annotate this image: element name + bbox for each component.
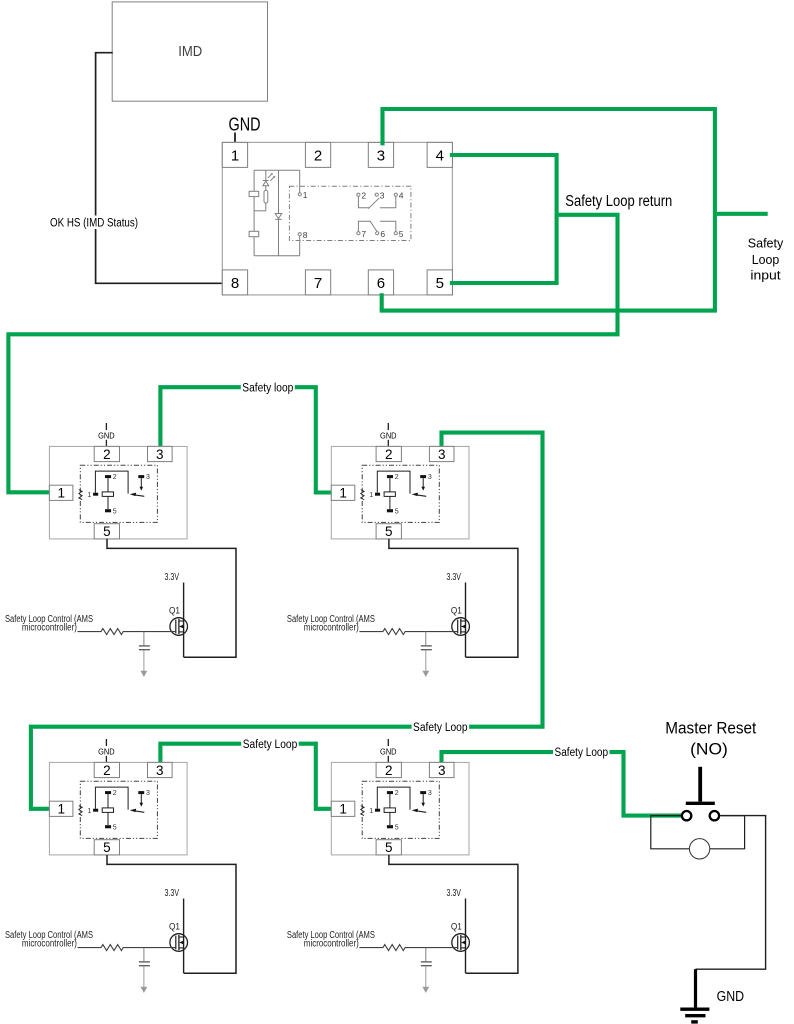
label Safety Loop Control (Q1b) (287, 614, 375, 634)
ground arrow (Q1d) (422, 987, 429, 993)
relay K3 GND net label (98, 739, 115, 762)
svg-text:Safety: Safety (748, 235, 784, 250)
svg-text:7: 7 (361, 229, 366, 239)
relay K3 internal terminal 1 (87, 808, 98, 815)
label Safety Loop input (748, 235, 784, 282)
svg-text:microcontroller): microcontroller) (304, 623, 359, 634)
svg-text:1: 1 (339, 486, 347, 501)
svg-text:3: 3 (428, 790, 432, 797)
svg-text:microcontroller): microcontroller) (22, 939, 77, 950)
svg-text:microcontroller): microcontroller) (304, 939, 359, 950)
relay U1 internal contact point 8 (298, 230, 308, 240)
relay U1 contact linkage upper (358, 196, 395, 208)
relay U1 terminal block upper (249, 191, 259, 196)
relay K4 pin 2 (376, 762, 401, 777)
svg-text:Q1: Q1 (451, 605, 462, 615)
safety loop wire: K3 pin 3 to K4 pin 1 (160, 744, 335, 809)
svg-text:3: 3 (380, 190, 385, 200)
relay K2 coil (384, 478, 395, 509)
svg-text:4: 4 (436, 147, 444, 164)
svg-text:1: 1 (87, 808, 91, 815)
ground symbol (680, 969, 709, 1022)
relay K3 package outline (49, 762, 187, 855)
3.3V supply wire (Q1c) (183, 899, 185, 974)
relay K3 internal terminal 3 (138, 790, 150, 797)
gate resistor (Q1b) (359, 629, 457, 635)
svg-text:Safety Loop: Safety Loop (243, 739, 298, 751)
relay K4 fixed contact arrow (421, 794, 425, 807)
relay K1 movable contact arm (130, 493, 145, 497)
svg-text:8: 8 (231, 275, 239, 292)
relay U1 LED light arrows (268, 173, 276, 181)
label Safety Loop Control (Q1c) (5, 930, 93, 950)
relay K4 pin 3 (429, 762, 454, 777)
svg-text:Q1: Q1 (169, 921, 180, 931)
svg-text:6: 6 (377, 275, 385, 292)
svg-text:4: 4 (399, 190, 404, 200)
relay K2 internal terminal 5 (387, 508, 399, 515)
relay K4 internal terminal 2 (387, 790, 399, 797)
relay K4 movable contact arm (412, 809, 427, 813)
relay U1 internal contact point 4 (394, 190, 404, 200)
relay K4 internal terminal 5 (387, 824, 399, 831)
relay K2 pin 5 (376, 524, 401, 539)
relay K1 coil spring mark (79, 490, 82, 500)
ground arrow (Q1b) (422, 671, 429, 677)
gate capacitor (Q1a) (139, 632, 150, 671)
gate capacitor (Q1d) (421, 948, 432, 987)
relay U1 pin 2 (305, 142, 330, 167)
svg-text:2: 2 (395, 474, 399, 481)
label OK HS (IMD Status) (49, 216, 141, 230)
relay K1 inner boundary (dash-dot box) (80, 465, 157, 522)
gate capacitor (Q1c) (139, 948, 150, 987)
svg-text:Safety Loop: Safety Loop (413, 722, 468, 734)
svg-text:3.3V: 3.3V (165, 887, 180, 899)
svg-text:GND: GND (380, 430, 397, 440)
svg-text:2: 2 (395, 790, 399, 797)
gate resistor (Q1a) (78, 629, 176, 635)
relay U1 pin 8 (222, 270, 247, 295)
svg-text:1: 1 (369, 492, 373, 499)
svg-text:GND: GND (98, 430, 115, 440)
svg-text:3: 3 (377, 147, 385, 164)
svg-text:3: 3 (146, 790, 150, 797)
wire relay pin 5 to Q1a drain loop (107, 539, 236, 657)
master reset lamp (689, 839, 709, 859)
transistor Q1a (N-MOSFET) (170, 618, 188, 636)
relay U1 input resistor (264, 190, 268, 203)
relay K3 pin 2 (94, 762, 119, 777)
relay K1 pin 1 (49, 485, 73, 500)
safety loop wire: return branch to relay K1 pin 1 (8, 215, 617, 493)
relay K4 pin 5 (376, 840, 401, 855)
relay K4 inner boundary (dash-dot box) (362, 781, 439, 838)
transistor Q1b (N-MOSFET) (452, 618, 470, 636)
svg-text:Safety loop: Safety loop (242, 382, 293, 394)
relay U1 pin 7 (305, 270, 330, 295)
safety loop return wire: U1 pin 4 to U1 pin 5 (450, 155, 557, 283)
svg-text:3: 3 (156, 763, 164, 778)
relay K1 coil (102, 478, 113, 509)
svg-text:GND: GND (229, 114, 261, 134)
IMD box (112, 2, 267, 101)
svg-text:Q1: Q1 (451, 921, 462, 931)
gate resistor (Q1d) (359, 945, 457, 951)
relay U1 internal contact point 1 (298, 190, 308, 200)
svg-text:GND: GND (717, 989, 745, 1005)
3.3V supply wire (Q1d) (465, 899, 467, 974)
relay K4 package outline (331, 762, 469, 855)
relay U1 contact compartment (dash-dot box) (289, 186, 411, 240)
transistor Q1d (N-MOSFET) (452, 934, 470, 952)
svg-text:Master Reset: Master Reset (665, 719, 756, 738)
relay K1 pin 3 (148, 446, 173, 461)
relay K2 inner boundary (dash-dot box) (362, 465, 439, 522)
net label Safety Loop (row 2 feed) (412, 721, 470, 734)
svg-text:5: 5 (113, 824, 117, 831)
relay K4 coil (384, 794, 395, 825)
svg-text:8: 8 (303, 230, 308, 240)
svg-text:2: 2 (113, 474, 117, 481)
svg-text:Loop: Loop (752, 252, 780, 267)
label Safety Loop Control (Q1d) (287, 930, 375, 950)
safety loop wire: K4 pin 3 to master reset switch (442, 752, 682, 816)
wire relay pin 5 to Q1c drain loop (107, 855, 236, 973)
wire OK HS from IMD to relay pin 8 (96, 53, 223, 284)
relay K3 contact wire (95, 787, 128, 810)
relay U1 pin 1 (222, 142, 247, 167)
svg-text:(NO): (NO) (690, 741, 728, 759)
svg-text:2: 2 (385, 763, 393, 778)
relay K2 pin 2 (376, 446, 401, 461)
net label Safety loop (row 1) (241, 382, 295, 395)
svg-text:3: 3 (438, 447, 446, 462)
label Safety Loop Control (Q1a) (5, 614, 93, 634)
ground arrow (Q1c) (141, 987, 148, 993)
relay K1 pin 2 (94, 446, 119, 461)
relay U1 input circuit outline (254, 170, 300, 255)
master reset lamp branch wire (651, 816, 690, 849)
svg-text:2: 2 (385, 447, 393, 462)
relay U1 internal contact point 6 (376, 229, 386, 239)
relay K3 pin 3 (148, 762, 173, 777)
relay K1 GND net label (98, 423, 115, 446)
relay K2 fixed contact arrow (421, 478, 425, 491)
relay K1 internal terminal 3 (138, 474, 150, 481)
svg-text:1: 1 (303, 190, 308, 200)
relay U1 input wires (254, 203, 266, 211)
wire relay pin 5 to Q1b drain loop (389, 539, 518, 657)
svg-text:3.3V: 3.3V (165, 571, 180, 583)
relay K2 pin 3 (429, 446, 454, 461)
svg-text:5: 5 (385, 524, 393, 539)
3.3V supply wire (Q1a) (183, 583, 185, 658)
svg-text:1: 1 (339, 802, 347, 817)
relay K1 package outline (49, 446, 187, 539)
gate resistor (Q1c) (78, 945, 176, 951)
relay U1 package outline (222, 142, 452, 295)
svg-text:Q1: Q1 (169, 605, 180, 615)
relay K3 movable contact arm (130, 809, 145, 813)
relay K2 pin 1 (331, 485, 355, 500)
svg-text:1: 1 (87, 492, 91, 499)
svg-text:5: 5 (385, 840, 393, 855)
relay U1 internal contact point 7 (357, 229, 367, 239)
relay K2 movable contact arm (412, 493, 427, 497)
svg-text:1: 1 (57, 486, 65, 501)
relay K3 fixed contact arrow (140, 794, 144, 807)
svg-text:7: 7 (314, 275, 322, 292)
svg-text:Safety Loop return: Safety Loop return (565, 193, 672, 210)
svg-text:5: 5 (103, 840, 111, 855)
relay U1 pin 6 (368, 270, 393, 295)
net label Safety Loop (row 2 left) (241, 738, 299, 751)
relay U1 internal contact point 3 (375, 190, 385, 200)
ground arrow (Q1a) (141, 671, 148, 677)
relay K4 contact wire (377, 787, 410, 810)
svg-text:3: 3 (156, 447, 164, 462)
relay K3 inner boundary (dash-dot box) (80, 781, 157, 838)
svg-text:5: 5 (399, 229, 404, 239)
transistor Q1c (N-MOSFET) (170, 934, 188, 952)
safety loop wire: K2 pin 3 to K3 pin 1 (long loop) (31, 433, 543, 809)
relay K2 internal terminal 3 (420, 474, 432, 481)
relay U1 internal contact point 5 (394, 229, 404, 239)
svg-text:3.3V: 3.3V (446, 571, 461, 583)
push button SW1 (NO) (682, 767, 719, 821)
relay U1 pin 3 (368, 142, 393, 167)
relay K4 internal terminal 3 (420, 790, 432, 797)
svg-text:1: 1 (57, 802, 65, 817)
safety loop wire: U1 pin 3 to U1 pin 6 (right loop) (382, 109, 715, 311)
net label Safety Loop (to master reset) (553, 747, 610, 760)
relay U1 pin 4 (427, 142, 452, 167)
relay K4 pin 1 (331, 801, 355, 816)
svg-text:1: 1 (231, 147, 239, 164)
3.3V supply wire (Q1b) (465, 583, 467, 658)
svg-text:input: input (750, 268, 781, 283)
relay K3 pin 1 (49, 801, 73, 816)
relay K2 package outline (331, 446, 469, 539)
svg-text:6: 6 (380, 229, 385, 239)
svg-text:GND: GND (380, 746, 397, 756)
relay K1 internal terminal 1 (87, 492, 98, 499)
relay K4 coil spring mark (361, 806, 364, 816)
wire relay pin 5 to Q1d drain loop (389, 855, 518, 973)
relay K4 GND net label (380, 739, 397, 762)
gate capacitor (Q1b) (421, 632, 432, 671)
svg-text:GND: GND (98, 746, 115, 756)
relay U1 contact linkage lower (358, 221, 395, 232)
svg-text:2: 2 (103, 447, 111, 462)
relay K1 contact wire (95, 471, 128, 494)
svg-text:5: 5 (113, 508, 117, 515)
relay U1 terminal block lower (249, 231, 259, 236)
relay K4 internal terminal 1 (369, 808, 380, 815)
svg-text:3: 3 (438, 763, 446, 778)
wire master reset to GND (696, 816, 766, 970)
relay K2 GND net label (380, 423, 397, 446)
safety loop wire: K1 pin 3 to K2 pin 1 (160, 387, 335, 492)
relay K2 contact wire (377, 471, 410, 494)
relay K3 coil spring mark (79, 806, 82, 816)
svg-text:3: 3 (428, 474, 432, 481)
relay U1 internal contact point 2 (357, 190, 367, 200)
svg-text:IMD: IMD (178, 44, 202, 60)
relay K3 coil (102, 794, 113, 825)
relay K3 pin 5 (94, 840, 119, 855)
svg-text:5: 5 (103, 524, 111, 539)
svg-text:2: 2 (314, 147, 322, 164)
svg-text:2: 2 (361, 190, 366, 200)
relay K3 internal terminal 2 (105, 790, 117, 797)
svg-text:Safety Loop: Safety Loop (555, 747, 609, 759)
relay K2 internal terminal 1 (369, 492, 380, 499)
svg-text:5: 5 (436, 275, 444, 292)
svg-text:2: 2 (103, 763, 111, 778)
relay U1 LED (263, 170, 269, 190)
svg-text:5: 5 (395, 508, 399, 515)
svg-text:microcontroller): microcontroller) (22, 623, 77, 634)
safety loop input stub (717, 212, 768, 216)
svg-text:5: 5 (395, 824, 399, 831)
relay U1 pin 5 (427, 270, 452, 295)
relay K2 coil spring mark (361, 490, 364, 500)
svg-text:3.3V: 3.3V (446, 887, 461, 899)
svg-text:2: 2 (113, 790, 117, 797)
GND net label (relay U1 pin 1) (229, 114, 261, 143)
relay K1 fixed contact arrow (140, 478, 144, 491)
relay K1 pin 5 (94, 524, 119, 539)
relay K3 internal terminal 5 (105, 824, 117, 831)
relay K1 internal terminal 2 (105, 474, 117, 481)
svg-text:1: 1 (369, 808, 373, 815)
relay U1 protection diode (275, 170, 282, 255)
svg-text:OK HS (IMD Status): OK HS (IMD Status) (50, 218, 138, 230)
relay K2 internal terminal 2 (387, 474, 399, 481)
master reset lamp branch wire right (710, 816, 745, 849)
svg-text:3: 3 (146, 474, 150, 481)
relay K1 internal terminal 5 (105, 508, 117, 515)
